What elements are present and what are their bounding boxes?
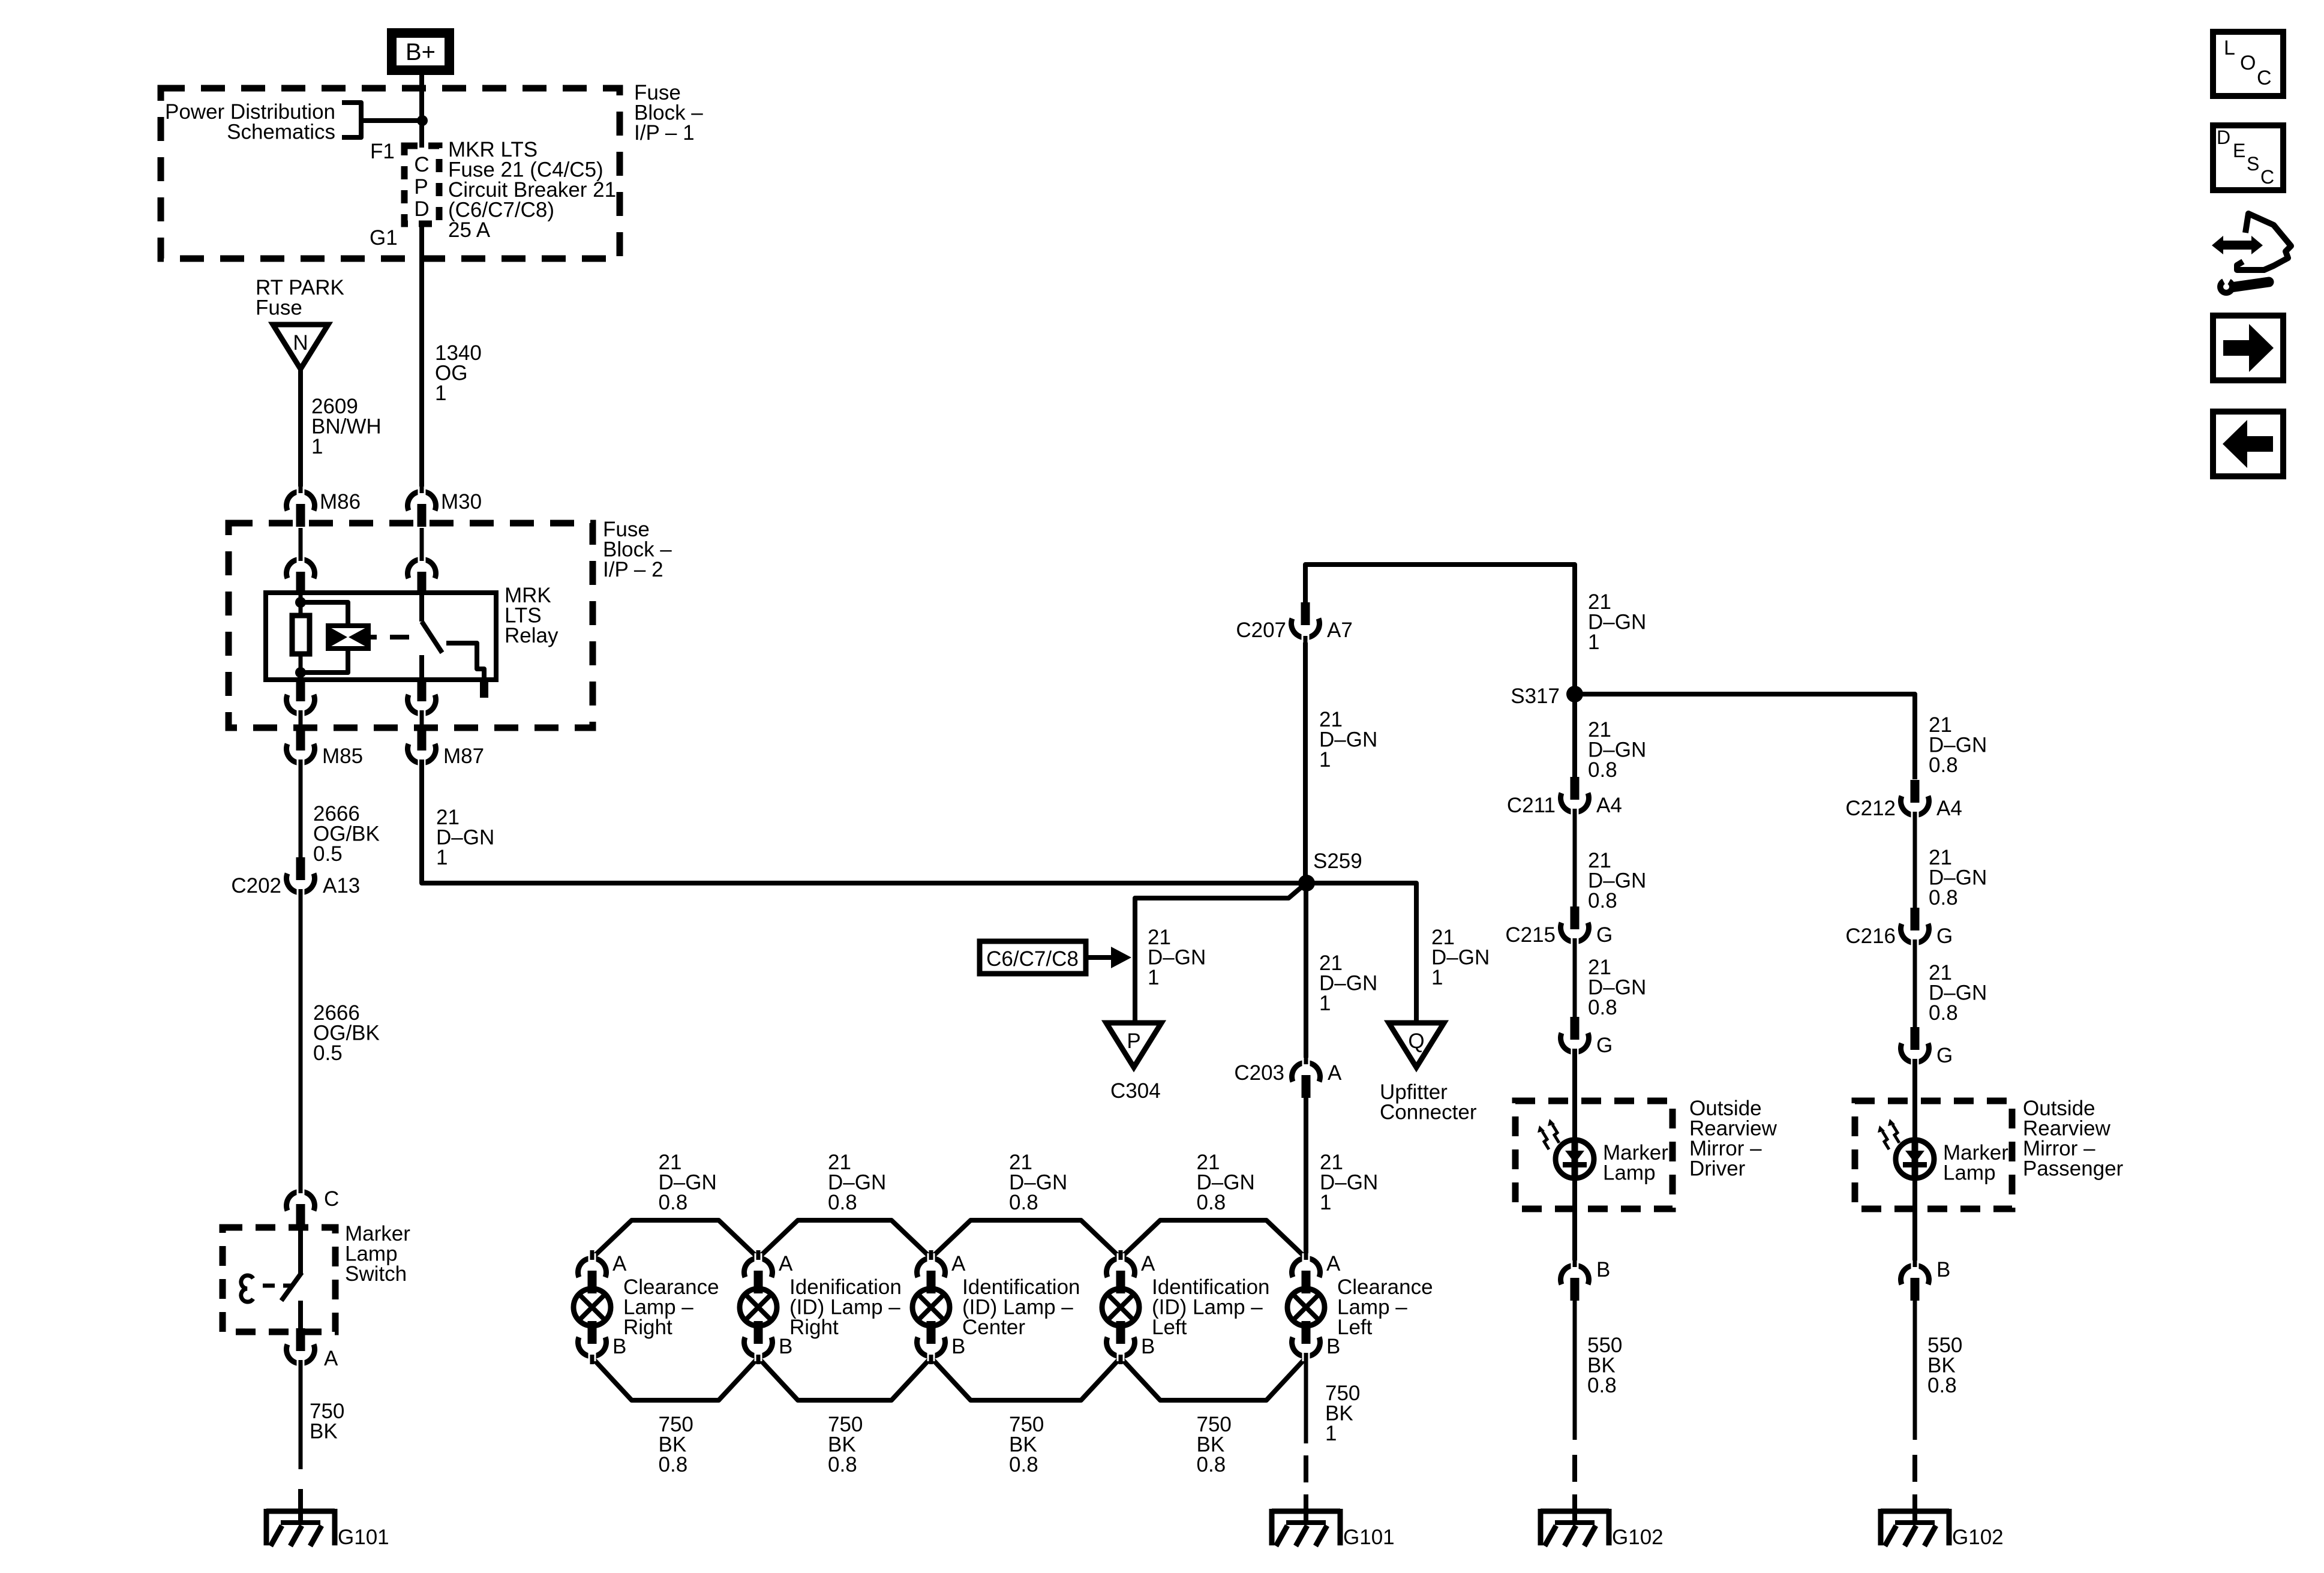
svg-text:0.5: 0.5 (313, 842, 343, 866)
svg-text:C203: C203 (1234, 1061, 1284, 1085)
svg-text:A4: A4 (1596, 794, 1622, 817)
connector B of identification lamp left (1116, 1321, 1125, 1344)
wire S259 to C304 / off-page P (1135, 888, 1301, 1024)
wire CPD G1 down to connector M30 (419, 224, 424, 495)
svg-text:0.8: 0.8 (659, 1453, 688, 1476)
svg-text:0.8: 0.8 (1009, 1453, 1038, 1476)
svg-text:1: 1 (311, 435, 323, 458)
svg-text:Lamp: Lamp (1603, 1161, 1656, 1185)
connector relay to fuse block (left) (296, 679, 305, 701)
svg-text:G102: G102 (1952, 1526, 2004, 1549)
connector B of identification lamp right (754, 1321, 763, 1344)
svg-text:A: A (1328, 1061, 1342, 1085)
connector M30 (408, 491, 436, 511)
svg-text:D: D (2217, 127, 2230, 148)
svg-text:S317: S317 (1511, 685, 1560, 708)
connector C207 / A7 (1301, 602, 1310, 625)
svg-text:P: P (414, 175, 428, 199)
wire feed bus identification lamp center A to identification lamp left A (931, 1220, 1121, 1258)
svg-text:C215: C215 (1505, 923, 1556, 947)
svg-text:B: B (1141, 1335, 1155, 1358)
svg-text:C202: C202 (231, 874, 281, 897)
svg-text:1: 1 (1319, 992, 1331, 1015)
svg-text:Right: Right (789, 1316, 839, 1339)
off-page connector Q (1389, 1023, 1444, 1067)
wire S259 to off-page Q (1307, 883, 1416, 1024)
connector C212 / A4 (1911, 780, 1920, 803)
wire feed bus clearance lamp right A to identification lamp right A (592, 1220, 758, 1258)
svg-text:Relay: Relay (505, 624, 559, 647)
wire C216 to G (1913, 939, 1917, 1028)
connector A of identification lamp center (917, 1258, 945, 1277)
wire C211 to C215 (1573, 809, 1577, 908)
svg-text:C: C (2257, 67, 2272, 89)
svg-text:L: L (2224, 37, 2235, 59)
svg-text:G102: G102 (1612, 1526, 1664, 1549)
wire C215 to G (1573, 938, 1577, 1018)
svg-text:G: G (1936, 924, 1953, 948)
connector B mirror passenger (1901, 1265, 1929, 1284)
connector B of clearance lamp left (1302, 1321, 1311, 1344)
outside rearview mirror passenger dashed box (1855, 1101, 2012, 1209)
outside rearview mirror driver dashed box (1515, 1101, 1673, 1209)
svg-text:A: A (779, 1252, 793, 1275)
wire C202 down to marker lamp switch (299, 889, 303, 1195)
svg-text:0.8: 0.8 (1927, 1374, 1957, 1397)
relay MRK LTS box (266, 593, 496, 680)
svg-text:G101: G101 (338, 1526, 389, 1549)
svg-text:C: C (2260, 166, 2274, 188)
relay coil (bowtie in box) (328, 626, 368, 649)
relay switch blade (422, 622, 442, 653)
wire C207 up and across to S317 drop (1305, 565, 1575, 694)
svg-text:G: G (1936, 1044, 1953, 1067)
wire clearance lamp left B down toward ground (1304, 1353, 1308, 1443)
svg-text:Lamp: Lamp (1943, 1161, 1996, 1185)
icon vehicle service (double arrow, outline, wrench) (2212, 214, 2291, 296)
connector A of identification lamp left (1107, 1258, 1135, 1277)
bracket Power Distribution Schematics (342, 103, 361, 137)
svg-text:1: 1 (1325, 1422, 1337, 1445)
svg-text:G101: G101 (1343, 1526, 1395, 1549)
wire S317 across to passenger mirror drop (1575, 694, 1915, 779)
svg-text:1: 1 (1431, 966, 1443, 989)
wire feed bus identification lamp right A to identification lamp center A (758, 1220, 931, 1258)
wire ground bus identification lamp left B to clearance lamp left B (1121, 1358, 1306, 1400)
wire feed bus identification lamp left A to clearance lamp left A (1121, 1220, 1306, 1258)
relay unused terminal stub (480, 681, 488, 698)
ground G101 left (266, 1509, 335, 1514)
wire S259 up to connector C207 (1303, 635, 1308, 883)
svg-text:1: 1 (1320, 1191, 1331, 1214)
marker lamp switch blade (298, 1227, 303, 1274)
connector C216 / G (1911, 908, 1920, 930)
svg-text:Right: Right (623, 1316, 672, 1339)
svg-text:1: 1 (1319, 748, 1331, 772)
connector M87 (418, 728, 427, 751)
wire fuse N down to connector M86 (298, 369, 303, 495)
battery positive terminal B+ (387, 28, 454, 75)
svg-text:Schematics: Schematics (227, 121, 335, 144)
svg-text:1: 1 (436, 846, 448, 869)
svg-text:A7: A7 (1327, 619, 1353, 642)
connector A of identification lamp right (744, 1258, 773, 1277)
ground G101 center (1272, 1509, 1340, 1514)
connector B of identification lamp center (927, 1321, 936, 1344)
svg-text:Passenger: Passenger (2023, 1157, 2124, 1181)
svg-text:0.8: 0.8 (1197, 1191, 1226, 1214)
svg-text:C212: C212 (1845, 797, 1896, 820)
svg-text:0.8: 0.8 (1588, 758, 1617, 782)
callout arrow (1086, 955, 1113, 960)
dashed wire segment to ground (1572, 1455, 1577, 1482)
svg-text:N: N (293, 331, 308, 355)
svg-text:C211: C211 (1507, 794, 1556, 817)
svg-text:Left: Left (1337, 1316, 1373, 1339)
fuse block I/P-1 dashed box (161, 88, 620, 259)
junction dot relay bottom (295, 667, 306, 678)
svg-text:1: 1 (435, 382, 446, 405)
svg-text:Fuse: Fuse (256, 296, 302, 320)
relay resistor (292, 616, 310, 654)
svg-text:A: A (1141, 1252, 1155, 1275)
svg-text:A: A (324, 1347, 338, 1370)
svg-text:E: E (2233, 140, 2245, 161)
icon box arrow right (2213, 316, 2283, 380)
connector G at mirror passenger (1911, 1027, 1920, 1050)
relay switch common wire (419, 593, 424, 622)
svg-text:0.8: 0.8 (828, 1453, 857, 1476)
svg-text:I/P – 1: I/P – 1 (634, 121, 695, 145)
svg-text:0.8: 0.8 (828, 1191, 857, 1214)
wire ground bus identification lamp center B to identification lamp left B (931, 1358, 1121, 1400)
junction dot power distribution tap (417, 115, 428, 126)
connector C at marker lamp switch (287, 1191, 315, 1211)
ground G102 driver (1541, 1509, 1609, 1514)
wire C212 to C216 (1913, 812, 1917, 909)
wire LED down to B connector passenger (1912, 1178, 1917, 1268)
relay NO contact (446, 643, 484, 681)
wire G into mirror passenger (1912, 1059, 1917, 1140)
wire C203 down to clearance lamp left (1304, 1098, 1308, 1257)
junction dot relay top (295, 597, 306, 608)
wire ground bus clearance lamp right B to identification lamp right B (592, 1358, 758, 1400)
marker lamp switch detent symbol (241, 1275, 253, 1302)
svg-text:B: B (1326, 1335, 1340, 1358)
svg-text:C6/C7/C8: C6/C7/C8 (986, 947, 1079, 971)
connector C202 / A13 (296, 857, 305, 880)
relay switch output wire (419, 655, 424, 680)
svg-text:0.8: 0.8 (1929, 754, 1958, 777)
relay coil branch wires (299, 593, 303, 618)
svg-text:A: A (1326, 1252, 1341, 1275)
connector M86 (287, 491, 315, 511)
connector A of clearance lamp right (578, 1258, 606, 1277)
marker lamp switch dashed box (223, 1227, 335, 1332)
svg-text:0.8: 0.8 (1588, 889, 1617, 912)
svg-text:A13: A13 (323, 874, 360, 897)
svg-text:25 A: 25 A (448, 218, 491, 242)
svg-text:1: 1 (1588, 631, 1599, 654)
svg-text:B: B (1936, 1258, 1950, 1281)
svg-text:Connecter: Connecter (1380, 1101, 1477, 1124)
wire M85 down to C202 (299, 760, 303, 858)
fuse block I/P-2 dashed box (229, 523, 593, 728)
svg-text:O: O (2240, 52, 2256, 74)
splice S259 (1298, 875, 1315, 891)
svg-text:Switch: Switch (345, 1262, 407, 1286)
svg-text:Center: Center (962, 1316, 1025, 1339)
svg-text:C304: C304 (1110, 1079, 1161, 1103)
svg-text:C: C (324, 1187, 339, 1211)
connector B mirror driver (1561, 1265, 1589, 1284)
wire S317 down to C211 (1572, 694, 1577, 778)
off-page connector P (1106, 1023, 1161, 1067)
icon box LOC (2213, 32, 2283, 96)
svg-text:B+: B+ (406, 39, 436, 65)
svg-text:B: B (612, 1335, 626, 1358)
wire M87 down and right to splice S259 (422, 760, 1307, 883)
svg-text:0.8: 0.8 (1587, 1374, 1617, 1397)
marker lamp LED passenger (1896, 1140, 1934, 1178)
wire LED down to B connector (1572, 1178, 1577, 1268)
dashed wire segment to ground (1912, 1455, 1917, 1482)
dashed wire segment to ground (298, 1489, 303, 1508)
dashed wire segment to ground (1304, 1455, 1308, 1482)
svg-text:C: C (414, 153, 429, 176)
icon box arrow left (2213, 412, 2283, 476)
svg-text:D: D (414, 197, 429, 221)
svg-text:0.8: 0.8 (1197, 1453, 1226, 1476)
svg-text:B: B (1596, 1258, 1610, 1281)
svg-text:C207: C207 (1236, 619, 1286, 642)
svg-text:Q: Q (1408, 1029, 1424, 1053)
marker lamp LED driver (1556, 1140, 1594, 1178)
connector G at mirror driver (1571, 1017, 1580, 1040)
connector fuse block to relay (left) (299, 528, 303, 563)
wire A down toward ground G101 (299, 1360, 303, 1469)
svg-text:M86: M86 (320, 490, 361, 514)
svg-text:0.8: 0.8 (1009, 1191, 1038, 1214)
callout box C6/C7/C8 (980, 941, 1086, 974)
splice S317 (1566, 686, 1583, 703)
connector C203 / A (1292, 1062, 1320, 1082)
lamp clearance lamp right (574, 1289, 611, 1326)
svg-text:B: B (951, 1335, 965, 1358)
wire G into mirror driver (1572, 1049, 1577, 1140)
lamp identification lamp left (1102, 1289, 1139, 1326)
svg-text:G: G (1596, 923, 1613, 947)
svg-text:C216: C216 (1845, 924, 1896, 948)
svg-text:S259: S259 (1313, 849, 1362, 873)
svg-text:M87: M87 (443, 745, 484, 768)
svg-text:0.8: 0.8 (1929, 1001, 1958, 1025)
wire B+ down to fuse F1 (CPD) (419, 75, 424, 148)
fuse symbol N (RT PARK) (273, 325, 328, 369)
connector A below switch (296, 1328, 305, 1351)
svg-text:A4: A4 (1936, 797, 1962, 820)
relay actuation dashed link (368, 635, 377, 640)
svg-text:S: S (2247, 153, 2259, 175)
svg-text:P: P (1127, 1029, 1140, 1053)
svg-text:A: A (951, 1252, 966, 1275)
connector A of clearance lamp left (1292, 1258, 1320, 1277)
svg-text:0.8: 0.8 (1929, 886, 1958, 909)
connector fuse block to relay (right) (420, 528, 424, 563)
svg-text:F1: F1 (370, 140, 395, 163)
connector relay to fuse block (right) (418, 679, 427, 701)
svg-text:BK: BK (310, 1420, 338, 1443)
connector C215 / G (1571, 906, 1580, 929)
wire ground bus identification lamp right B to identification lamp center B (758, 1358, 931, 1400)
wire B down toward ground G102 (1573, 1301, 1577, 1440)
svg-text:A: A (612, 1252, 627, 1275)
wire junction to power distribution bracket (364, 118, 422, 123)
svg-text:I/P – 2: I/P – 2 (603, 558, 663, 581)
svg-text:0.5: 0.5 (313, 1041, 343, 1065)
lamp identification lamp right (740, 1289, 777, 1326)
svg-text:B: B (779, 1335, 792, 1358)
connector B of clearance lamp right (588, 1321, 597, 1344)
connector C211 / A4 (1571, 777, 1580, 800)
fuse / circuit breaker CPD (MKR LTS Fuse 21) dashed box (404, 146, 439, 224)
svg-text:0.8: 0.8 (1588, 996, 1617, 1019)
lamp identification lamp center (912, 1289, 950, 1326)
svg-text:M85: M85 (322, 745, 363, 768)
svg-text:Driver: Driver (1689, 1157, 1746, 1181)
wire B down toward ground G102 passenger (1913, 1301, 1917, 1440)
icon box DESC (2213, 125, 2283, 190)
lamp clearance lamp left (1287, 1289, 1325, 1326)
svg-text:M30: M30 (441, 490, 482, 514)
svg-text:G: G (1596, 1034, 1613, 1057)
svg-text:1: 1 (1148, 966, 1159, 989)
svg-text:0.8: 0.8 (659, 1191, 688, 1214)
svg-text:G1: G1 (370, 226, 398, 250)
svg-text:Left: Left (1152, 1316, 1187, 1339)
ground G102 passenger (1881, 1509, 1949, 1514)
wire S259 down to connector C203 (1304, 883, 1308, 1065)
connector M85 (296, 728, 305, 751)
